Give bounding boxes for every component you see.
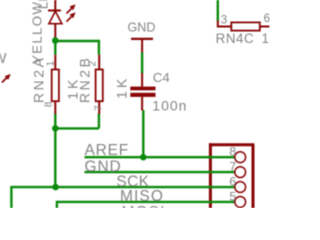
svg-text:8: 8: [44, 101, 55, 107]
svg-text:YELLOW: YELLOW: [30, 1, 45, 64]
svg-text:3: 3: [221, 13, 227, 26]
svg-text:MISO: MISO: [120, 188, 164, 205]
svg-text:1K: 1K: [113, 76, 129, 99]
svg-text:AREF: AREF: [85, 142, 130, 159]
svg-text:RN2A: RN2A: [31, 56, 47, 103]
svg-text:7: 7: [93, 105, 105, 111]
svg-text:2: 2: [88, 61, 99, 67]
svg-text:8: 8: [229, 145, 236, 159]
svg-text:RN4C: RN4C: [216, 31, 255, 46]
svg-text:C4: C4: [153, 70, 170, 85]
svg-text:LED3: LED3: [36, 0, 51, 9]
svg-text:6: 6: [264, 12, 270, 25]
svg-text:7: 7: [229, 160, 236, 174]
svg-text:1: 1: [46, 60, 57, 66]
svg-text:6: 6: [229, 174, 236, 188]
svg-text:5: 5: [229, 189, 236, 203]
svg-text:GND: GND: [128, 20, 156, 34]
svg-text:W: W: [0, 51, 7, 67]
svg-text:100n: 100n: [152, 98, 187, 114]
svg-text:1K: 1K: [262, 31, 271, 46]
svg-text:MOSI: MOSI: [122, 204, 166, 208]
